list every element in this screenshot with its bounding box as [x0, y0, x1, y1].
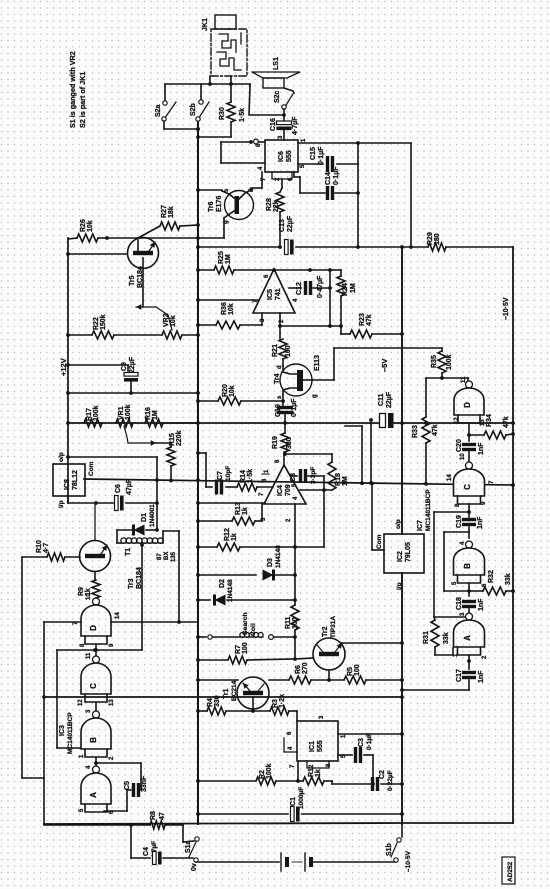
capacitor C10 0.1uF — [275, 398, 298, 425]
svg-text:220k: 220k — [176, 430, 183, 446]
svg-text:47µF: 47µF — [126, 478, 133, 495]
resistor R24 1M — [330, 270, 357, 334]
resistor R28 22k — [266, 192, 284, 247]
svg-text:C13: C13 — [279, 219, 286, 232]
resistor R3 1.2k — [253, 694, 297, 721]
svg-text:0·47µF: 0·47µF — [317, 275, 324, 298]
svg-text:R27: R27 — [161, 205, 168, 218]
svg-text:10k: 10k — [228, 303, 235, 315]
resistor R31 33k — [423, 617, 465, 655]
svg-text:79L05: 79L05 — [405, 542, 412, 562]
svg-text:10k: 10k — [87, 220, 94, 232]
resistor R15 220k — [156, 430, 183, 482]
op-amp IC5 741 — [253, 269, 299, 323]
svg-text:R6: R6 — [295, 665, 302, 674]
svg-text:87: 87 — [157, 553, 163, 560]
resistor R17 100k — [66, 405, 102, 427]
wire Tr4 gate to R35 row — [303, 348, 442, 380]
transistor Tr4 E113 — [274, 355, 321, 399]
svg-text:MC14011BCP: MC14011BCP — [425, 489, 432, 531]
wire Tr5 emitter to VR2 wiper — [142, 258, 144, 307]
svg-text:C8: C8 — [290, 473, 297, 482]
svg-text:11: 11 — [86, 652, 92, 659]
svg-text:33nF: 33nF — [141, 775, 148, 792]
capacitor C5 33nF — [96, 763, 148, 811]
svg-text:C17: C17 — [456, 669, 463, 682]
svg-text:–10·5V: –10·5V — [503, 297, 510, 320]
wire +12V rail vertical — [67, 238, 69, 502]
resistor R23 47k — [341, 313, 404, 338]
wire IC2 com — [370, 482, 384, 551]
svg-text:R23: R23 — [359, 313, 366, 326]
wire left rail x44 — [43, 622, 45, 824]
svg-text:1M: 1M — [342, 476, 349, 486]
svg-text:R14: R14 — [240, 470, 247, 483]
wire C11 branch — [370, 423, 372, 483]
switch S2a — [155, 84, 200, 131]
label -5V — [380, 359, 389, 372]
transistor Tr5 BC184 — [128, 238, 159, 289]
svg-text:R10: R10 — [36, 540, 43, 553]
svg-text:B: B — [463, 563, 472, 569]
switch S1a — [183, 824, 199, 871]
svg-text:33k: 33k — [443, 632, 450, 644]
switch S2c — [274, 88, 294, 115]
capacitor C19 1nF — [456, 515, 484, 529]
svg-text:C11: C11 — [378, 393, 385, 406]
svg-text:Tr6: Tr6 — [208, 201, 215, 212]
wire Tr2 emitter — [327, 670, 331, 682]
resistor R36 10k — [196, 302, 262, 329]
svg-text:Tr3: Tr3 — [128, 578, 135, 589]
resistor R35 100k — [431, 348, 453, 380]
svg-text:BC184: BC184 — [136, 567, 143, 589]
wire IC6 pin1 row — [298, 141, 411, 247]
wire C input node — [434, 504, 471, 617]
svg-text:1nF: 1nF — [478, 442, 485, 455]
svg-text:47k: 47k — [366, 314, 373, 326]
wire IC6 pin4 — [221, 142, 265, 163]
wire IC4 pin4 riser — [322, 488, 326, 547]
capacitor C14 0.1uF — [294, 166, 358, 200]
svg-text:270: 270 — [302, 662, 309, 674]
svg-text:R22: R22 — [93, 317, 100, 330]
svg-text:–5V: –5V — [380, 359, 389, 372]
svg-text:Tr1: Tr1 — [223, 688, 230, 699]
capacitor C11 22uF — [369, 391, 393, 428]
svg-text:R28: R28 — [266, 198, 273, 211]
svg-text:o/p: o/p — [58, 452, 65, 462]
wire IC5 pin7 — [196, 298, 259, 302]
NAND gate IC7-A — [453, 612, 488, 659]
svg-text:1M: 1M — [350, 283, 357, 293]
svg-text:0·22µF: 0·22µF — [387, 770, 394, 791]
svg-text:47: 47 — [159, 812, 166, 820]
svg-text:1·5k: 1·5k — [247, 469, 254, 483]
capacitor C20 1nF — [456, 439, 485, 462]
svg-text:C9: C9 — [121, 362, 128, 371]
wire x362 branch — [345, 426, 364, 485]
svg-text:135: 135 — [171, 551, 177, 562]
preset VR2 10k — [136, 304, 200, 339]
label -10.5V right — [503, 297, 510, 320]
svg-text:A: A — [463, 635, 472, 641]
capacitor C18 1nF — [456, 597, 485, 613]
svg-text:R31: R31 — [423, 631, 430, 644]
capacitor C13 22uF — [196, 215, 358, 254]
wire x157 riser — [156, 457, 158, 530]
svg-text:12: 12 — [454, 417, 460, 424]
svg-text:Com: Com — [88, 461, 95, 476]
NAND gate IC3-B — [79, 709, 115, 760]
svg-text:d: d — [277, 365, 283, 369]
svg-text:1N4001: 1N4001 — [149, 504, 156, 527]
wire -10.5V rail right vertical — [512, 247, 514, 823]
svg-text:78L12: 78L12 — [72, 470, 79, 490]
wire IC5 out node — [270, 268, 332, 272]
svg-text:R9: R9 — [78, 587, 85, 596]
battery B1 — [281, 853, 396, 871]
capacitor C17 1nF — [400, 669, 485, 692]
capacitor C1 1000uF — [196, 787, 404, 822]
svg-text:C: C — [89, 683, 98, 689]
capacitor C4 4.7uF — [131, 825, 193, 865]
svg-text:S2 is part of JK1: S2 is part of JK1 — [78, 72, 87, 128]
wire row y680 — [196, 678, 238, 682]
svg-text:14: 14 — [115, 612, 121, 619]
resistor R11 100 — [285, 605, 299, 658]
svg-text:R18: R18 — [335, 473, 342, 486]
svg-text:MC14011BCP: MC14011BCP — [67, 712, 74, 754]
svg-text:10: 10 — [86, 593, 92, 600]
svg-text:555: 555 — [286, 150, 293, 162]
svg-text:R34: R34 — [486, 414, 493, 427]
svg-text:C7: C7 — [217, 471, 224, 480]
wire Tr2 collector — [341, 641, 404, 645]
wire row y650 — [57, 648, 142, 748]
resistor R20 10k — [196, 384, 285, 405]
svg-text:S2a: S2a — [155, 104, 162, 117]
wire C to B — [95, 703, 97, 711]
svg-text:E113: E113 — [314, 355, 321, 371]
op-amp IC4 709 — [258, 459, 306, 522]
svg-text:R7: R7 — [235, 645, 242, 654]
IC2 79L05 regulator — [376, 519, 424, 590]
wire Tr4 source to C10 — [282, 395, 284, 401]
resistor R18 1M — [300, 454, 349, 490]
wire D input node — [467, 423, 471, 441]
svg-text:VR1: VR1 — [118, 406, 125, 420]
resistor R34 47k — [469, 414, 515, 439]
wire IC6 pin7 to Tr6 drain — [251, 172, 262, 188]
capacitor C7 10pF — [206, 466, 237, 495]
svg-text:18k: 18k — [168, 206, 175, 218]
svg-text:0v: 0v — [191, 863, 198, 871]
transistor Tr2 TIP31A — [313, 616, 345, 670]
switch S1b — [386, 823, 412, 872]
IC6 555 timer — [256, 135, 307, 181]
capacitor C6 47uF — [115, 478, 159, 510]
svg-text:C20: C20 — [456, 439, 463, 452]
svg-text:Tr5: Tr5 — [129, 275, 136, 286]
svg-text:IC4: IC4 — [277, 485, 284, 496]
wire Tr5 base — [66, 252, 127, 256]
resistor R22 150k — [66, 314, 162, 339]
resistor R29 180 — [358, 232, 513, 251]
svg-text:D: D — [89, 625, 98, 631]
search coil — [196, 612, 295, 639]
wire riser x358 — [356, 143, 360, 249]
svg-text:C: C — [463, 484, 472, 490]
svg-text:IC8: IC8 — [64, 479, 71, 490]
wire gate bus y622 — [44, 620, 198, 624]
capacitor C12 0.47uF — [289, 270, 332, 326]
wire Tr1 base — [251, 697, 255, 713]
wire R7 to Tr2 base — [295, 658, 313, 659]
wire IC5 pin2 — [278, 313, 282, 339]
wire B to A — [94, 758, 98, 769]
svg-text:R8: R8 — [150, 811, 157, 820]
svg-text:T1: T1 — [125, 548, 132, 556]
svg-text:C3: C3 — [358, 738, 365, 747]
resistor R16 1M — [145, 407, 200, 427]
capacitor C16 4.7uF — [270, 115, 299, 140]
resistor R25 1M — [196, 251, 270, 274]
svg-text:Com: Com — [376, 534, 383, 549]
label IC7 — [417, 489, 432, 531]
capacitor C8 3.3pF — [290, 467, 324, 490]
capacitor C2 0.22uF — [332, 770, 404, 791]
resistor R9 1k — [78, 572, 100, 600]
svg-text:1·5k: 1·5k — [239, 108, 246, 122]
svg-text:BX: BX — [164, 552, 170, 560]
svg-text:13: 13 — [109, 699, 115, 706]
svg-text:IC2: IC2 — [397, 551, 404, 562]
svg-text:R19: R19 — [272, 436, 279, 449]
svg-text:1k: 1k — [242, 507, 249, 515]
svg-text:14: 14 — [447, 474, 453, 481]
svg-text:IC6: IC6 — [278, 151, 285, 162]
svg-text:150k: 150k — [100, 314, 107, 330]
svg-text:LS1: LS1 — [273, 57, 280, 70]
svg-text:0·1µF: 0·1µF — [318, 146, 325, 165]
wire IC4 pin7 row — [196, 501, 265, 505]
svg-text:o/p: o/p — [395, 519, 402, 529]
wire C19 to B — [444, 527, 469, 591]
wire B input node — [444, 583, 471, 596]
svg-text:1·2k: 1·2k — [279, 694, 286, 708]
svg-text:100: 100 — [354, 664, 361, 676]
wire C7 feed — [196, 451, 206, 487]
svg-text:1nF: 1nF — [478, 670, 485, 683]
svg-text:1N4148: 1N4148 — [275, 545, 282, 568]
svg-text:47k: 47k — [503, 416, 510, 428]
note S2 part of JK1 — [78, 72, 87, 128]
diode D3 1N4148 — [196, 545, 295, 581]
wire T1 tap — [140, 543, 144, 650]
svg-text:1nF: 1nF — [477, 516, 484, 529]
wire IC5 pin3 — [261, 313, 263, 325]
note S1 ganged — [68, 51, 77, 128]
svg-text:D: D — [463, 402, 472, 408]
label AD252 — [502, 857, 515, 884]
svg-text:R29: R29 — [427, 232, 434, 245]
wire main horizontal bus y423 — [68, 421, 515, 425]
capacitor C9 22uF — [66, 356, 138, 393]
wire row y393 — [66, 391, 200, 395]
wire A input node — [467, 655, 471, 669]
svg-text:22µF: 22µF — [129, 356, 136, 373]
wire IC8 in / C6 row — [68, 496, 113, 505]
resistor R19 330 — [272, 423, 293, 456]
svg-text:0·1µF: 0·1µF — [333, 166, 340, 185]
capacitor C15 0.1uF — [298, 146, 358, 172]
svg-text:555: 555 — [317, 740, 324, 752]
wire IC4 out — [283, 452, 285, 465]
wire left rail x22 — [22, 557, 44, 778]
svg-text:R35: R35 — [431, 355, 438, 368]
svg-text:1000µF: 1000µF — [298, 787, 305, 809]
svg-text:1nF: 1nF — [478, 598, 485, 611]
wire IC6 pin8 — [221, 139, 265, 144]
resistor R7 100 — [196, 642, 297, 664]
NAND gate IC3-A — [79, 765, 115, 814]
wire D inputs — [94, 645, 98, 656]
svg-text:B: B — [89, 737, 98, 743]
svg-text:IC3: IC3 — [59, 725, 66, 736]
resistor R4 330 — [196, 695, 253, 715]
svg-text:S2b: S2b — [190, 103, 197, 116]
wire C gate rail connect — [511, 483, 515, 487]
svg-text:12: 12 — [78, 699, 84, 706]
resistor R6 270 — [269, 662, 329, 684]
resistor R30 1.5k — [196, 84, 246, 139]
wire common bus y480-485 — [84, 479, 513, 485]
resistor R12 1k — [196, 528, 324, 551]
svg-text:4·7: 4·7 — [43, 543, 50, 553]
IC8 78L12 regulator — [53, 452, 95, 508]
svg-text:R12: R12 — [224, 528, 231, 541]
wire -5V rail B vertical — [401, 247, 403, 824]
svg-text:D1: D1 — [141, 513, 148, 522]
wire row y238 to Tr6 gate — [107, 236, 224, 240]
svg-text:R11: R11 — [285, 616, 292, 629]
wire IC8 out — [66, 455, 157, 459]
svg-text:S1 is ganged with VR2: S1 is ganged with VR2 — [68, 51, 77, 128]
transistor Tr3 BC184 — [80, 503, 144, 589]
wire 0V rail A vertical — [197, 121, 199, 824]
resistor R1 1k — [296, 761, 332, 785]
svg-text:47k: 47k — [432, 424, 439, 436]
NAND gate IC7-D — [442, 376, 486, 426]
wire Tr6 gate — [223, 218, 225, 238]
svg-text:A: A — [89, 792, 98, 798]
svg-text:R20: R20 — [222, 384, 229, 397]
wire bottom bus y823 — [44, 823, 513, 824]
svg-text:10: 10 — [460, 453, 466, 460]
svg-text:0·1µF: 0·1µF — [366, 733, 373, 750]
switch S2b — [190, 100, 209, 121]
NAND gate IC7-B — [452, 532, 488, 587]
transistor Tr1 BC214 — [223, 677, 269, 709]
svg-text:1k: 1k — [231, 533, 238, 541]
svg-text:4·7µF: 4·7µF — [292, 116, 299, 135]
svg-text:R13: R13 — [235, 502, 242, 515]
svg-text:R26: R26 — [80, 219, 87, 232]
resistor R13 1k — [196, 502, 262, 525]
svg-text:R15: R15 — [169, 433, 176, 446]
svg-text:R33: R33 — [412, 425, 419, 438]
svg-text:22µF: 22µF — [386, 391, 393, 408]
svg-text:TIP31A: TIP31A — [330, 616, 337, 638]
svg-text:R30: R30 — [219, 107, 226, 120]
NAND gate IC7-C — [447, 453, 495, 507]
svg-text:i/p: i/p — [396, 582, 403, 590]
wire jack to switches — [165, 76, 250, 100]
IC1 555 timer — [284, 715, 347, 768]
svg-text:709: 709 — [285, 484, 292, 496]
svg-text:C2: C2 — [379, 770, 386, 779]
resistor R5 100 — [329, 664, 404, 684]
svg-text:R32: R32 — [488, 570, 495, 583]
resistor R26 10k — [68, 219, 109, 242]
preset VR1 100k — [116, 404, 156, 445]
resistor R2 100k — [196, 763, 298, 785]
diode D2 1N4148 — [196, 579, 295, 606]
svg-text:C19: C19 — [456, 515, 463, 528]
IC3 label — [59, 712, 74, 754]
svg-text:R25: R25 — [218, 251, 225, 264]
resistor R14 1.5k — [237, 469, 273, 491]
svg-text:R21: R21 — [272, 344, 279, 357]
svg-text:C14: C14 — [325, 172, 332, 185]
capacitor C3 0.1uF — [338, 733, 373, 784]
resistor R8 47 — [44, 811, 183, 829]
svg-text:AD252: AD252 — [507, 861, 514, 882]
resistor R32 33k — [469, 570, 515, 595]
wire IC6 pin2-6 to R28 — [280, 179, 282, 192]
speaker LS1 — [252, 57, 300, 88]
wire speaker feed — [249, 84, 286, 117]
svg-text:C15: C15 — [310, 147, 317, 160]
svg-text:C5: C5 — [124, 781, 131, 790]
svg-text:33k: 33k — [505, 573, 512, 585]
svg-text:R4: R4 — [207, 698, 214, 707]
diode D1 1N4001 — [117, 504, 157, 543]
svg-text:10pF: 10pF — [225, 466, 232, 481]
svg-text:D3: D3 — [267, 558, 274, 567]
svg-text:E176: E176 — [216, 196, 223, 212]
resistor R21 100 — [272, 339, 292, 366]
svg-text:741: 741 — [275, 288, 282, 300]
svg-text:C4: C4 — [143, 847, 150, 856]
wire IC8 com row — [84, 478, 373, 485]
svg-text:11: 11 — [461, 376, 467, 383]
svg-text:+12V: +12V — [59, 358, 68, 376]
svg-text:JK1: JK1 — [202, 18, 209, 31]
wire battery row — [196, 861, 279, 863]
svg-text:100k: 100k — [266, 763, 273, 779]
wire out row y454 — [285, 453, 332, 455]
svg-text:100k: 100k — [93, 405, 100, 421]
svg-text:IC7: IC7 — [417, 520, 424, 531]
svg-text:C18: C18 — [456, 597, 463, 610]
svg-text:R36: R36 — [221, 302, 228, 315]
NAND gate IC3-C — [78, 652, 115, 706]
svg-text:10k: 10k — [229, 385, 236, 397]
wire IC4 pin2 riser — [293, 504, 297, 605]
svg-text:i/p: i/p — [58, 500, 65, 508]
